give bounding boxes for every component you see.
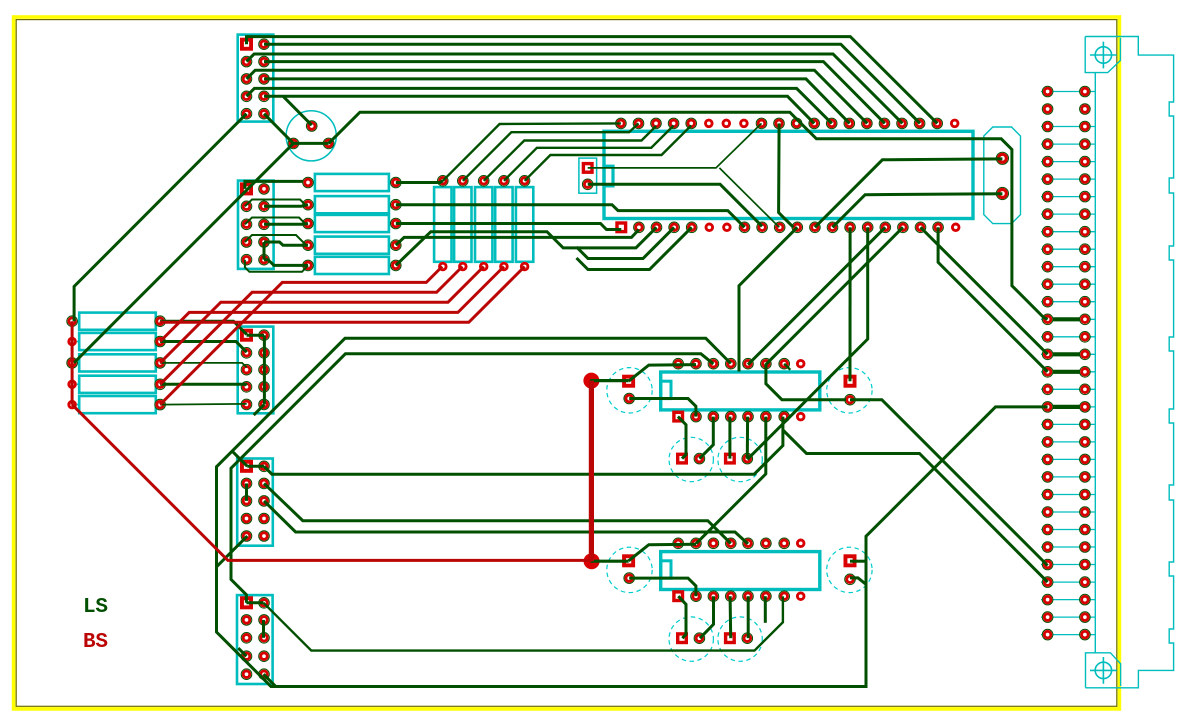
edge connector pin a4 bbox=[1043, 140, 1052, 149]
relay K1 bottom-right restrict circle bbox=[718, 437, 762, 481]
edge connector pin c23 bbox=[1080, 472, 1089, 481]
wire J4.9 joins big loop bbox=[217, 536, 248, 567]
wire J1.9 to R1 column bbox=[74, 114, 246, 322]
red wire R1-R5 left column chain bbox=[71, 321, 74, 404]
IC U1 pin 12 (bottom) bbox=[810, 223, 819, 232]
edge connector pin c24 bbox=[1080, 490, 1089, 499]
connector J2 pin 3 bbox=[242, 202, 251, 211]
resistor R14 pad 2 bbox=[499, 262, 509, 272]
wire R15 to U1 pin 36 bbox=[525, 126, 692, 181]
connector J1 pin 2 bbox=[259, 40, 268, 49]
edge connector pin c6 bbox=[1080, 175, 1089, 184]
wire J2.6 to R8 bbox=[264, 222, 308, 226]
red wire R5 to R11 bottom bbox=[160, 267, 442, 405]
connector J6 outline bbox=[579, 158, 597, 193]
edge connector pin a13 bbox=[1043, 297, 1052, 306]
relay K1 pin b1 bbox=[672, 411, 684, 423]
edge connector pin c28 bbox=[1080, 560, 1089, 569]
wire K1 coil L2 to pin b2 bbox=[629, 399, 696, 417]
relay K1 coil pad L1 bbox=[622, 375, 635, 388]
edge connector pin c7 bbox=[1080, 192, 1089, 201]
red wire R5 left to via V2 bbox=[72, 405, 592, 561]
connector J1 pin 4 bbox=[259, 57, 268, 66]
wire R11 to U1 pin 40 bbox=[443, 123, 621, 180]
connector J4 outline bbox=[237, 459, 273, 546]
resistor R3 pad 1 bbox=[68, 358, 77, 367]
wire R8 right to U1 pin 1 bbox=[396, 224, 622, 230]
relay K2 contact pad c4 bbox=[743, 634, 752, 643]
wire K2 pin b5 to contact c4 bbox=[747, 596, 750, 638]
wire R4 right to J3.7 bbox=[160, 384, 247, 385]
connector J3 pin 1 bbox=[240, 329, 253, 342]
svg-text:LS: LS bbox=[83, 596, 108, 619]
IC U1 pin 22 (top) bbox=[933, 119, 942, 128]
wire bus J1.8 to U1 bbox=[264, 96, 814, 123]
wire R2 right to J3.3 bbox=[160, 342, 247, 353]
wire J4.1 joins loop bbox=[232, 451, 247, 466]
relay K1 pin b7 bbox=[780, 412, 789, 421]
connector J1 outline bbox=[238, 35, 274, 122]
edge connector pin a24 bbox=[1043, 490, 1052, 499]
relay K1 left restrict circle bbox=[607, 368, 652, 413]
wire elbow to U1 pin 5 bbox=[577, 227, 692, 269]
wire bus J1.1 to U1 bbox=[266, 37, 937, 124]
edge connector pin c32 bbox=[1080, 630, 1089, 639]
resistor R8 pad 1 bbox=[303, 219, 312, 228]
IC U1 pin 11 (bottom) bbox=[793, 223, 802, 232]
resistor R8 pad 2 bbox=[391, 219, 400, 228]
IC U1 pin 29 (top) bbox=[810, 119, 819, 128]
edge connector pin a29 bbox=[1043, 578, 1052, 587]
resistor R13 pad 2 bbox=[479, 262, 489, 272]
wire elbow to U1 pin 4 bbox=[577, 227, 675, 258]
resistor R1 outline bbox=[79, 313, 156, 330]
wire K2 coil R1 stub bbox=[850, 560, 866, 563]
resistor R5 outline bbox=[79, 396, 156, 413]
wire Q1 emitter to edge row 14 bbox=[329, 112, 1048, 319]
resistor R7 pad 1 bbox=[303, 200, 312, 209]
connector J2 pin 7 bbox=[242, 237, 251, 246]
resistor R5 pad 1 bbox=[67, 400, 77, 410]
relay K2 pin b3 bbox=[709, 592, 718, 601]
edge connector pin a18 bbox=[1043, 385, 1052, 394]
connector J3 pin 10 bbox=[259, 400, 268, 409]
IC U1 pin 25 (top) bbox=[880, 119, 889, 128]
relay K2 pin b7 bbox=[780, 592, 789, 601]
edge connector pin c17 bbox=[1080, 367, 1089, 376]
edge connector pin c1 bbox=[1080, 87, 1089, 96]
IC U1 pin 39 (top) bbox=[634, 119, 643, 128]
connector J5 pin 8 bbox=[259, 652, 268, 661]
IC U1 pin 21 (top) bbox=[950, 119, 960, 129]
wire K1 pin t7 stub bbox=[784, 364, 790, 370]
relay K1 pin t2 bbox=[691, 359, 700, 368]
relay K2 contact pad c3 bbox=[724, 632, 736, 644]
edge connector pin a31 bbox=[1043, 613, 1052, 622]
terminal X1 outline bbox=[984, 127, 1021, 224]
edge connector pin a21 bbox=[1043, 437, 1052, 446]
relay K1 coil pad L2 bbox=[625, 394, 634, 403]
IC U1 pin 36 (top) bbox=[687, 119, 696, 128]
relay K2 pin t2 bbox=[691, 539, 700, 548]
resistor R3 outline bbox=[79, 354, 156, 371]
wire J5 pins 1-2 link bbox=[246, 601, 263, 604]
edge connector pin c31 bbox=[1080, 613, 1089, 622]
wire U1 pin 13 to X1 pad 2 bbox=[833, 194, 1003, 228]
edge connector body line bbox=[1094, 73, 1096, 653]
resistor R5 pad 2 bbox=[156, 400, 165, 409]
relay K1 pin t5 bbox=[743, 359, 752, 368]
wire U1 pin 19 to edge row 17 bbox=[938, 227, 1048, 371]
connector J3 outline bbox=[238, 327, 274, 414]
relay K1 pin b4 bbox=[726, 412, 735, 421]
edge connector pin a19 bbox=[1043, 402, 1052, 411]
relay K2 notch marker bbox=[661, 561, 671, 578]
resistor R15 pad 2 bbox=[520, 262, 530, 272]
resistor R10 pad 1 bbox=[303, 261, 312, 270]
resistor R15 pad 1 bbox=[520, 176, 529, 185]
relay K2 pin t3 bbox=[709, 539, 718, 548]
IC U1 pin 32 (top) bbox=[757, 119, 766, 128]
relay K1 contact pad c1 bbox=[676, 453, 688, 465]
red wire R1 to R15 bottom bbox=[160, 267, 524, 323]
edge connector pin c5 bbox=[1080, 157, 1089, 166]
resistor R11 outline bbox=[434, 187, 451, 262]
relay K2 pin t6 bbox=[761, 539, 770, 548]
wire J2.7 jog to R9 bbox=[245, 235, 306, 245]
IC U1 pin 37 (top) bbox=[669, 119, 678, 128]
red wire R4 to R12 bottom bbox=[160, 267, 462, 385]
IC U1 pin 9 (bottom) bbox=[758, 223, 767, 232]
wire loop B to K1 pin t4 bbox=[217, 338, 867, 686]
edge connector pin a3 bbox=[1043, 122, 1052, 131]
wire K1 pin b6 to K2 pin t2 bbox=[696, 417, 766, 544]
connector J4 pin 8 bbox=[259, 514, 268, 523]
relay K1 coil pad R1 bbox=[844, 375, 857, 388]
edge connector pin a1 bbox=[1043, 87, 1052, 96]
card edge connector outline bbox=[1085, 37, 1173, 688]
relay K1 pin t4 bbox=[726, 359, 735, 368]
wire U1 pin 31 to pin 11 bbox=[779, 123, 794, 227]
wire K2 coil L1 to pins t1-t2 bbox=[629, 544, 696, 561]
wire J1.8 branch to Q1 base bbox=[283, 96, 312, 125]
connector J5 pin 3 bbox=[242, 615, 251, 624]
wire K1 pin b5 to contact c4 bbox=[746, 417, 749, 459]
wire bus J1.4 to U1 bbox=[264, 62, 885, 124]
edge connector pin a11 bbox=[1043, 262, 1052, 271]
edge connector pin c8 bbox=[1080, 210, 1089, 219]
IC U1 pin 40 (top) bbox=[616, 119, 625, 128]
relay K1 pin t7 bbox=[780, 359, 789, 368]
edge connector pin a26 bbox=[1043, 525, 1052, 534]
resistor R2 pad 2 bbox=[156, 337, 165, 346]
wire K2 pin b4 to contact c3 bbox=[729, 596, 733, 638]
IC U1 outline bbox=[604, 131, 973, 218]
connector J5 pin 5 bbox=[242, 633, 251, 642]
relay K2 pin t1 bbox=[674, 539, 683, 548]
edge connector pin c14 bbox=[1080, 315, 1089, 324]
wire via V1 to K1 coil L1 bbox=[591, 379, 628, 382]
edge connector pin a2 bbox=[1043, 104, 1052, 113]
resistor R1 pad 2 bbox=[156, 317, 165, 326]
edge connector pin a20 bbox=[1043, 420, 1052, 429]
IC U1 pin 13 (bottom) bbox=[828, 223, 837, 232]
edge connector pin a28 bbox=[1043, 560, 1052, 569]
connector J5 pin 1 bbox=[240, 596, 253, 609]
relay K2 pin b6 bbox=[761, 592, 770, 601]
wire R3 right to J3.5 bbox=[160, 363, 247, 368]
relay K2 coil pad R2 bbox=[845, 575, 854, 584]
relay K1 pin b2 bbox=[691, 412, 700, 421]
resistor R12 outline bbox=[454, 187, 471, 262]
wire edge row 19 to bottom loop bbox=[866, 407, 1048, 584]
connector J5 pin 9 bbox=[242, 670, 251, 679]
resistor R11 pad 2 bbox=[438, 262, 448, 272]
connector J3 pin 5 bbox=[242, 365, 251, 374]
connector J3 pin 4 bbox=[259, 348, 268, 357]
resistor R8 outline bbox=[315, 215, 389, 232]
wire Q1 collector-emitter link bbox=[293, 142, 328, 145]
resistor R6 outline bbox=[315, 174, 389, 191]
relay K2 coil pad R1 bbox=[844, 554, 857, 567]
connector J3 pin 9 bbox=[242, 400, 251, 409]
wire U1 pin 18 to edge row 16 bbox=[921, 227, 1048, 354]
connector J4 pin 7 bbox=[242, 514, 251, 523]
resistor R3 pad 2 bbox=[156, 358, 165, 367]
edge connector pin a30 bbox=[1043, 595, 1052, 604]
edge connector pin c21 bbox=[1080, 437, 1089, 446]
connector J3 pin 2 bbox=[259, 331, 268, 340]
connector J1 pin 1 bbox=[240, 38, 253, 51]
relay K2 pin b1 bbox=[672, 590, 684, 602]
edge connector pin c29 bbox=[1080, 578, 1089, 587]
wire K1 pin b1 to contact c1 bbox=[678, 417, 686, 459]
resistor R4 pad 1 bbox=[67, 380, 77, 390]
resistor R11 pad 1 bbox=[438, 176, 447, 185]
wire J5 pins 4-6 link bbox=[262, 620, 265, 638]
edge connector pin a17 bbox=[1043, 367, 1052, 376]
edge connector row 19 link bbox=[1048, 405, 1085, 409]
wire K1 pin b4 to contact c3 bbox=[728, 417, 731, 459]
edge connector pin c10 bbox=[1080, 245, 1089, 254]
relay K1 pin b3 bbox=[709, 412, 718, 421]
wire J5.7 spur bbox=[238, 648, 246, 656]
wire U1 pin 15 to K1 contact c4 bbox=[747, 227, 867, 459]
mounting hole crosshair top bbox=[1095, 47, 1111, 63]
red wire via V1 to via V2 bbox=[589, 381, 594, 562]
connector J5 pin 4 bbox=[259, 615, 268, 624]
wire J6.1 to U1 pins bbox=[588, 123, 762, 167]
connector J5 pin 2 bbox=[259, 598, 268, 607]
edge connector pin a25 bbox=[1043, 507, 1052, 516]
wire bus J1.3 to U1 bbox=[247, 54, 903, 123]
edge connector pin c3 bbox=[1080, 122, 1089, 131]
connector J5 pin 7 bbox=[242, 652, 251, 661]
wire J6.1 branch to U1 pin 10 bbox=[719, 168, 779, 227]
IC U1 pin-1 notch marker bbox=[604, 166, 613, 186]
wire J6.2 to U1 pin 9 bbox=[588, 184, 762, 226]
IC U1 pin 2 (bottom) bbox=[634, 223, 643, 232]
IC U1 pin 28 (top) bbox=[827, 119, 836, 128]
edge connector pin a23 bbox=[1043, 472, 1052, 481]
edge connector pin a16 bbox=[1043, 350, 1052, 359]
edge connector pin a9 bbox=[1043, 227, 1052, 236]
resistor R13 outline bbox=[475, 187, 492, 262]
connector J5 outline bbox=[237, 595, 273, 684]
connector J1 pin 9 bbox=[242, 109, 251, 118]
resistor R10 outline bbox=[315, 257, 389, 274]
IC U1 pin 20 (bottom) bbox=[951, 223, 961, 233]
wire J3 pins 1-2 link bbox=[247, 334, 265, 337]
resistor R7 outline bbox=[315, 196, 389, 213]
edge connector pin a6 bbox=[1043, 175, 1052, 184]
wire R6 row links bbox=[264, 205, 308, 207]
relay K2 bottom-right restrict circle bbox=[718, 617, 762, 661]
wire J3 right column chain bbox=[263, 335, 266, 404]
wire J2 pin1 jog bbox=[245, 181, 308, 189]
IC U1 pin 26 (top) bbox=[862, 119, 871, 128]
wire U1 pin 17 to K1 pin t6 bbox=[766, 227, 903, 364]
connector J5 pin 6 bbox=[259, 633, 268, 642]
transistor Q1 pad E bbox=[324, 139, 333, 148]
edge connector pin c9 bbox=[1080, 227, 1089, 236]
wire R13 to U1 pin 38 bbox=[484, 126, 656, 181]
connector J5 pin 10 bbox=[259, 670, 268, 679]
resistor R7 pad 2 bbox=[391, 200, 400, 209]
wire J2.5 jog to R8 bbox=[245, 218, 305, 225]
relay K2 left restrict circle bbox=[607, 547, 652, 592]
wire J4 pins 1-2 link bbox=[247, 465, 264, 468]
connector J2 pin 5 bbox=[242, 220, 251, 229]
mounting hole crosshair bottom bbox=[1095, 662, 1111, 678]
connector J2 pin 1 bbox=[240, 182, 253, 195]
connector J4 pin 5 bbox=[242, 496, 251, 505]
relay K2 pin b4 bbox=[726, 592, 735, 601]
edge connector pin c18 bbox=[1080, 385, 1089, 394]
IC U1 pin 1 (bottom) bbox=[615, 221, 627, 233]
relay K1 contact pad c2 bbox=[695, 454, 704, 463]
red wire R2 to R14 bottom bbox=[160, 267, 504, 342]
edge connector pin c15 bbox=[1080, 332, 1089, 341]
connector J4 pin 2 bbox=[259, 462, 268, 471]
edge connector pin a32 bbox=[1043, 630, 1052, 639]
IC U1 pin 6 (bottom) bbox=[705, 223, 715, 233]
relay K1 outline bbox=[661, 372, 820, 410]
IC U1 pin 31 (top) bbox=[774, 119, 783, 128]
wire K1 coil L1 to pins t1-t2 bbox=[629, 365, 696, 382]
wire J2.8 to R9 bbox=[264, 242, 308, 245]
IC U1 pin 27 (top) bbox=[845, 119, 854, 128]
wire J4 pins 3-5 link bbox=[245, 483, 248, 501]
connector J1 pin 8 bbox=[259, 92, 268, 101]
edge connector pin a15 bbox=[1043, 332, 1052, 341]
edge connector pin a8 bbox=[1043, 210, 1052, 219]
connector J1 pin 10 bbox=[259, 109, 268, 118]
wire R6 right to R11 top bbox=[396, 181, 443, 183]
connector J3 pin 7 bbox=[242, 382, 251, 391]
connector J4 pin 9 bbox=[242, 531, 251, 540]
edge connector pin row stubs bbox=[1041, 92, 1095, 635]
edge connector pin c26 bbox=[1080, 525, 1089, 534]
wire J1 pin1 jog bbox=[247, 37, 267, 45]
edge connector pin c25 bbox=[1080, 507, 1089, 516]
connector J3 pin 8 bbox=[259, 382, 268, 391]
wire R1 right to J3.1 bbox=[160, 321, 247, 334]
relay K1 notch marker bbox=[661, 381, 671, 398]
edge connector pin c13 bbox=[1080, 297, 1089, 306]
edge connector pin a10 bbox=[1043, 245, 1052, 254]
wire U1 pin 14 to K1 coil R1 bbox=[849, 227, 852, 381]
wire J4.3 to K2 pin t4 bbox=[264, 483, 731, 543]
wire J2.9 jog to R10 bbox=[245, 260, 308, 272]
terminal X1 pad 1 bbox=[997, 153, 1008, 164]
IC U1 pin 38 (top) bbox=[651, 119, 660, 128]
IC U1 pin 5 (bottom) bbox=[687, 223, 696, 232]
resistor R9 pad 2 bbox=[391, 241, 400, 250]
wire bus J1.5 to U1 bbox=[247, 70, 868, 123]
relay K2 contact pad c1 bbox=[676, 632, 688, 644]
relay K2 pin b2 bbox=[691, 592, 700, 601]
IC U1 pin 14 (bottom) bbox=[846, 223, 855, 232]
wire J3.10 spur bbox=[254, 404, 265, 415]
connector J4 pin 6 bbox=[259, 496, 268, 505]
relay K1 pin t3 bbox=[709, 359, 718, 368]
edge connector pin a27 bbox=[1043, 542, 1052, 551]
wire via V2 to K2 coil L1 bbox=[592, 560, 629, 563]
wire loop C to K1 pin t3 bbox=[231, 354, 713, 603]
connector J6 pin 1 bbox=[582, 162, 594, 174]
wire K1 pin b3 to contact c2 bbox=[699, 417, 713, 459]
edge connector row 17 link bbox=[1048, 370, 1085, 374]
transistor Q1 pad B bbox=[307, 121, 316, 130]
resistor R14 outline bbox=[495, 187, 512, 262]
relay K1 right restrict circle bbox=[827, 368, 872, 413]
wire J2 pins 8-10 link bbox=[263, 242, 266, 260]
edge connector row 16 link bbox=[1048, 352, 1085, 356]
wire J4.5 to K2 pin t5 bbox=[264, 501, 748, 544]
IC U1 pin 17 (bottom) bbox=[898, 223, 907, 232]
relay K1 pin t8 bbox=[796, 359, 806, 369]
resistor R4 outline bbox=[79, 376, 156, 393]
IC U1 pin 3 (bottom) bbox=[652, 223, 661, 232]
wire K2 pin b6 stub bbox=[764, 596, 767, 623]
IC U1 pin 35 (top) bbox=[704, 119, 714, 129]
resistor R6 pad 1 bbox=[303, 178, 312, 187]
resistor R12 pad 1 bbox=[458, 176, 467, 185]
IC U1 pin 24 (top) bbox=[897, 119, 906, 128]
edge connector pin c16 bbox=[1080, 350, 1089, 359]
connector J1 pin 7 bbox=[242, 92, 251, 101]
wire K1 pin b7 to edge row 29 bbox=[783, 430, 1048, 582]
connector J2 pin 8 bbox=[259, 237, 268, 246]
red wire R3 to R13 bottom bbox=[160, 267, 484, 363]
svg-text:BS: BS bbox=[83, 631, 108, 654]
relay K2 pin t4 bbox=[726, 539, 735, 548]
edge connector pin c19 bbox=[1080, 402, 1089, 411]
wire U1 pin 12 to X1 pad 1 bbox=[815, 159, 1003, 227]
IC U1 pin 10 (bottom) bbox=[775, 223, 784, 232]
wire J5.2 to K2 pin b7 bbox=[264, 596, 783, 650]
edge connector pin c12 bbox=[1080, 280, 1089, 289]
relay K1 pin b5 bbox=[743, 412, 752, 421]
resistor R15 outline bbox=[516, 187, 533, 262]
transistor Q1 pad C bbox=[289, 139, 298, 148]
connector J2 pin 6 bbox=[259, 220, 268, 229]
wire R7 right to U1 pin 8 bbox=[396, 205, 745, 228]
edge connector pin c22 bbox=[1080, 455, 1089, 464]
resistor R1 pad 1 bbox=[68, 317, 77, 326]
IC U1 pin 23 (top) bbox=[915, 119, 924, 128]
